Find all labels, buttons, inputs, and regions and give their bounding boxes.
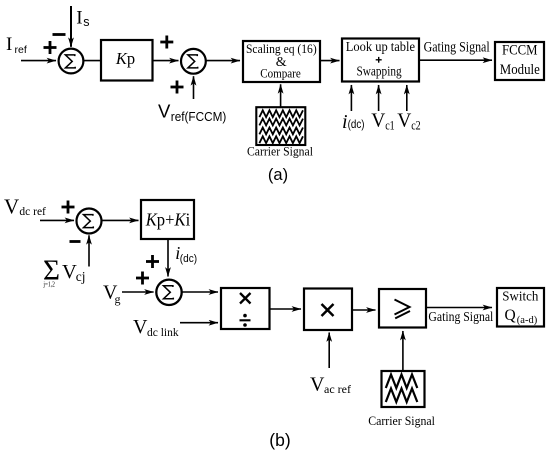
svg-text:V: V (397, 110, 411, 131)
svg-text:V: V (133, 316, 148, 338)
svg-text:I: I (76, 8, 82, 29)
svg-text:c1: c1 (385, 119, 395, 133)
svg-text:s: s (83, 15, 89, 29)
svg-text:Kp+Ki: Kp+Ki (145, 210, 191, 230)
svg-text:I: I (6, 34, 12, 55)
svg-text:Gating Signal: Gating Signal (424, 40, 490, 56)
svg-text:ac ref: ac ref (324, 384, 351, 396)
svg-text:V: V (158, 101, 171, 122)
svg-text:Look up table: Look up table (346, 39, 415, 54)
svg-text:V: V (4, 195, 19, 219)
svg-text:ref: ref (15, 44, 27, 56)
svg-text:Swapping: Swapping (357, 64, 402, 79)
svg-text:V: V (371, 110, 385, 131)
svg-text:g: g (115, 292, 121, 306)
svg-text:V: V (62, 261, 77, 283)
svg-text:Carrier Signal: Carrier Signal (368, 413, 435, 428)
svg-text:cj: cj (76, 269, 86, 284)
svg-text:Kp: Kp (115, 49, 135, 68)
svg-text:ref(FCCM): ref(FCCM) (171, 109, 227, 124)
svg-text:c2: c2 (411, 119, 421, 133)
svg-text:(a): (a) (268, 166, 288, 184)
svg-text:Carrier Signal: Carrier Signal (247, 144, 313, 159)
svg-text:dc ref: dc ref (19, 204, 46, 218)
svg-text:Scaling eq (16): Scaling eq (16) (246, 41, 317, 56)
svg-text:FCCM: FCCM (502, 42, 538, 58)
svg-text:(dc): (dc) (180, 253, 197, 265)
svg-text:dc link: dc link (147, 327, 179, 339)
svg-text:Q: Q (505, 307, 516, 324)
svg-text:Module: Module (500, 62, 540, 78)
svg-text:(dc): (dc) (348, 117, 365, 131)
svg-text:(a-d): (a-d) (517, 315, 538, 326)
svg-text:Switch: Switch (502, 290, 538, 305)
svg-text:Compare: Compare (260, 66, 301, 80)
svg-text:V: V (310, 374, 325, 396)
svg-text:Gating Signal: Gating Signal (428, 309, 493, 324)
svg-text:j=1,2: j=1,2 (43, 279, 55, 288)
svg-text:(b): (b) (269, 430, 290, 450)
